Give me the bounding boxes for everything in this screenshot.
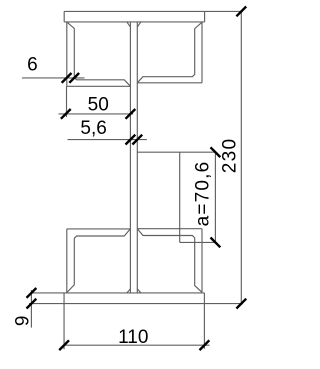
svg-text:9: 9: [12, 316, 33, 327]
svg-text:6: 6: [27, 55, 38, 76]
svg-text:230: 230: [220, 138, 241, 174]
svg-text:50: 50: [88, 94, 109, 115]
svg-text:a=70,6: a=70,6: [192, 161, 213, 227]
svg-text:110: 110: [118, 327, 148, 348]
svg-text:5,6: 5,6: [80, 118, 106, 139]
